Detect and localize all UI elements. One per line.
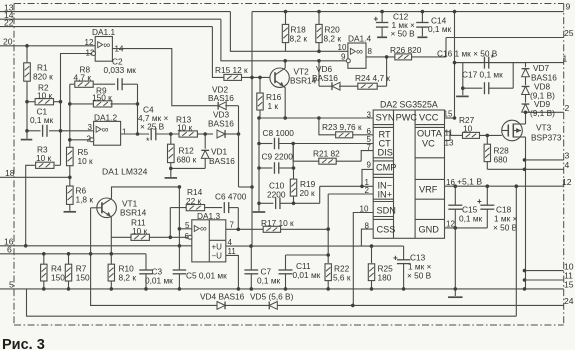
wire CMP pin9 xyxy=(362,169,373,186)
diode VD7 xyxy=(522,63,558,83)
svg-text:10: 10 xyxy=(463,124,473,134)
svg-text:CMP: CMP xyxy=(376,163,396,173)
svg-text:R24 4,7 к: R24 4,7 к xyxy=(355,73,390,83)
resistor R6 xyxy=(64,177,94,212)
capacitor C4 xyxy=(138,105,179,147)
wire bus13 step down to DA1.4 pin10 line xyxy=(230,12,353,52)
wire VD2/VD3 node down to 187 xyxy=(238,134,240,187)
svg-text:R23 9,76 к: R23 9,76 к xyxy=(322,122,362,132)
resistor R12 xyxy=(168,134,197,168)
resistor R19 xyxy=(290,168,315,203)
svg-text:20: 20 xyxy=(3,37,13,47)
svg-text:150 к: 150 к xyxy=(92,92,112,102)
svg-text:9: 9 xyxy=(367,161,372,170)
resistor R13 xyxy=(176,115,213,138)
capacitor C17 xyxy=(456,63,513,97)
wire SDN pin10 to line24 xyxy=(353,213,373,306)
transistor VT1 xyxy=(91,198,147,218)
resistor R4 xyxy=(41,254,66,289)
resistor R16 xyxy=(257,77,282,118)
svg-text:BAS16: BAS16 xyxy=(208,93,234,103)
svg-text:Рис. 3: Рис. 3 xyxy=(2,337,45,350)
op-amp DA1.4 xyxy=(338,34,373,69)
wire IN+ node down to R22 and C11 branch xyxy=(286,229,329,263)
svg-text:C16 1 мк × 50 B: C16 1 мк × 50 B xyxy=(437,49,498,59)
svg-text:22 к: 22 к xyxy=(186,196,202,206)
svg-text:R17 10 к: R17 10 к xyxy=(261,218,294,228)
capacitor C16 electrolytic xyxy=(437,49,526,69)
svg-text:C5 0,01 мк: C5 0,01 мк xyxy=(186,271,227,281)
resistor R26 xyxy=(390,38,446,60)
wire DA1.1 output to VD2 xyxy=(112,49,215,106)
capacitor C10 xyxy=(259,181,320,210)
svg-text:CSS: CSS xyxy=(377,225,396,235)
resistor R24 xyxy=(355,57,390,89)
capacitor C5 xyxy=(173,246,227,289)
resistor R22 xyxy=(325,264,351,289)
resistor R8 xyxy=(70,64,115,140)
svg-text:+: + xyxy=(374,15,379,24)
wire OUTA pins 11/13 merge xyxy=(445,128,463,147)
svg-text:22: 22 xyxy=(4,17,14,27)
svg-text:8,2 к: 8,2 к xyxy=(119,272,137,282)
wire R14 junction to DA1.3 pin6 xyxy=(168,208,188,238)
svg-text:1: 1 xyxy=(563,53,568,63)
diode VD4 xyxy=(200,292,245,310)
svg-text:0,033 мк: 0,033 мк xyxy=(104,65,137,75)
diode VD9 zener xyxy=(522,94,556,118)
svg-text:BAS16: BAS16 xyxy=(209,156,235,166)
node terminal 5 bus xyxy=(0,280,564,290)
wire IN+ pin2 xyxy=(328,194,373,229)
svg-text:0,1 мк: 0,1 мк xyxy=(428,24,452,34)
resistor R27 xyxy=(459,115,502,138)
wire VT1 emitter down xyxy=(110,216,113,254)
svg-text:2: 2 xyxy=(565,103,570,113)
wire DA1.4 output xyxy=(366,56,395,58)
wire bottom return bus xyxy=(27,289,517,316)
svg-text:OUTA: OUTA xyxy=(417,129,443,139)
wire DA1.3 pin11 to bus5 xyxy=(226,255,239,289)
resistor R18 xyxy=(282,12,307,52)
svg-text:BSP373: BSP373 xyxy=(531,133,562,143)
node terminal 4 xyxy=(487,160,569,170)
svg-text:5,6 к: 5,6 к xyxy=(333,272,351,282)
transistor VT2 xyxy=(270,67,317,88)
node terminal 18 xyxy=(0,168,70,178)
svg-text:18: 18 xyxy=(5,168,15,178)
wire VT3 source down xyxy=(525,137,527,289)
wire bus14 step down to DA1.4 pin9 line xyxy=(221,19,347,61)
svg-text:13: 13 xyxy=(445,139,454,148)
svg-text:+: + xyxy=(393,254,398,263)
svg-text:8,2 к: 8,2 к xyxy=(290,33,308,43)
svg-text:10 к: 10 к xyxy=(177,122,193,132)
resistor R1 xyxy=(24,46,53,102)
svg-text:0,1 мк: 0,1 мк xyxy=(257,276,281,286)
op-amp DA1.3 xyxy=(179,211,236,262)
svg-text:4: 4 xyxy=(565,160,570,170)
wire DA1.2 output line xyxy=(121,133,150,135)
svg-text:20 к: 20 к xyxy=(300,188,316,198)
svg-text:10 к: 10 к xyxy=(132,226,148,236)
svg-text:−U: −U xyxy=(212,252,223,261)
svg-text:VT3: VT3 xyxy=(536,123,552,133)
svg-text:DA1.4: DA1.4 xyxy=(348,34,371,44)
node terminal 3 xyxy=(525,151,570,161)
svg-text:10 к: 10 к xyxy=(36,153,52,163)
svg-text:4,7 к: 4,7 к xyxy=(74,72,92,82)
svg-text:7: 7 xyxy=(367,143,372,152)
capacitor C1 xyxy=(21,102,61,140)
wire VT3 drain to node2 xyxy=(525,112,527,124)
svg-text:SDN: SDN xyxy=(377,206,396,216)
svg-text:× 50 B: × 50 B xyxy=(407,271,432,281)
svg-text:× 25 B: × 25 B xyxy=(140,122,165,132)
capacitor C8 on CT line xyxy=(259,128,373,149)
node terminal 9 xyxy=(252,2,571,12)
svg-text:∞: ∞ xyxy=(102,124,109,135)
resistor R10 xyxy=(108,254,136,289)
svg-text:9: 9 xyxy=(566,2,571,12)
op-amp DA1.2 xyxy=(61,112,128,145)
capacitor C6 xyxy=(215,192,247,230)
svg-text:12: 12 xyxy=(562,177,572,187)
op-amp DA1.1 xyxy=(85,27,124,61)
resistor R14 xyxy=(170,187,222,211)
IC DA2 SG3525A xyxy=(360,100,456,239)
svg-text:VD7: VD7 xyxy=(533,63,550,73)
svg-text:DA1 LM324: DA1 LM324 xyxy=(102,167,148,177)
svg-text:2200: 2200 xyxy=(267,190,286,200)
resistor R21 to DIS xyxy=(293,144,373,165)
svg-text:+: + xyxy=(477,197,482,206)
resistor R28 xyxy=(484,135,509,169)
resistor R20 xyxy=(316,12,342,52)
svg-text:150: 150 xyxy=(51,272,65,282)
capacitor C7 xyxy=(244,246,280,289)
wire VT1 base down to line24 xyxy=(90,208,92,306)
svg-text:11: 11 xyxy=(228,247,237,256)
svg-text:C8 1000: C8 1000 xyxy=(263,128,295,138)
svg-text:0,1 мк: 0,1 мк xyxy=(30,115,54,125)
node terminal 24 xyxy=(90,296,574,306)
svg-text:10: 10 xyxy=(338,43,347,52)
svg-text:R26 820: R26 820 xyxy=(390,45,422,55)
svg-text:IN+: IN+ xyxy=(378,190,393,200)
node terminal 20 xyxy=(0,37,95,47)
svg-text:6: 6 xyxy=(7,245,12,255)
wire CSS pin8 xyxy=(361,229,373,246)
svg-text:VRF: VRF xyxy=(419,185,438,195)
capacitor C13 electrolytic xyxy=(393,246,432,289)
svg-text:1,8 к: 1,8 к xyxy=(76,195,94,205)
svg-text:0,1 мк: 0,1 мк xyxy=(459,214,483,224)
wire long riser bus9 to bus16 at x252 xyxy=(251,12,253,247)
wire DA1.1 pin13 to R2 node xyxy=(61,54,92,166)
transistor VT3 MOSFET xyxy=(502,120,562,142)
svg-text:(9,1 B): (9,1 B) xyxy=(530,108,555,118)
svg-text:× 50 B: × 50 B xyxy=(493,223,518,233)
wire GND pin12 line xyxy=(445,227,488,229)
svg-text:R21 82: R21 82 xyxy=(313,149,340,159)
node terminal 10 xyxy=(525,261,574,271)
svg-text:820 к: 820 к xyxy=(33,72,53,82)
svg-text:*: * xyxy=(491,53,495,63)
svg-text:VD5 (5,6 B): VD5 (5,6 B) xyxy=(250,292,294,302)
svg-text:5: 5 xyxy=(9,280,14,290)
svg-text:+5,1 B: +5,1 B xyxy=(457,177,482,187)
svg-text:0,01 мк: 0,01 мк xyxy=(145,276,173,286)
svg-text:15: 15 xyxy=(564,280,574,290)
wire GND rail down with ground xyxy=(448,228,463,297)
capacitor C2 xyxy=(104,57,138,91)
wire DA1.3 pin4 to bus16 segment xyxy=(226,245,404,247)
svg-text:GND: GND xyxy=(419,225,440,235)
wire VT1 collector to DA1.3 pin5 riser xyxy=(111,187,180,246)
svg-text:1 к: 1 к xyxy=(268,101,279,111)
svg-text:10 к: 10 к xyxy=(78,156,94,166)
svg-text:DA2 SG3525A: DA2 SG3525A xyxy=(380,100,438,110)
wire IN- pin1 xyxy=(320,186,374,203)
resistor R5 xyxy=(67,140,94,178)
svg-text:BAS16: BAS16 xyxy=(312,73,338,83)
node terminal 25 xyxy=(446,28,574,38)
svg-text:SYN: SYN xyxy=(376,113,395,123)
svg-text:∞: ∞ xyxy=(200,224,207,235)
node terminal 6 xyxy=(0,245,146,255)
diode VD2 xyxy=(208,85,239,135)
diode VD3 xyxy=(208,110,239,138)
svg-text:VCC: VCC xyxy=(419,113,439,123)
svg-text:BSR14: BSR14 xyxy=(120,208,147,218)
wire SYN pin3 line xyxy=(259,117,373,119)
svg-text:7: 7 xyxy=(230,220,235,229)
svg-text:C9 2200: C9 2200 xyxy=(262,152,294,162)
capacitor C12 electrolytic xyxy=(374,12,416,39)
svg-text:VC: VC xyxy=(422,139,435,149)
svg-text:+U: +U xyxy=(212,243,223,252)
svg-text:8,2 к: 8,2 к xyxy=(324,33,342,43)
vertical C8/C9/C10 rail with terminator xyxy=(253,118,266,212)
svg-text:1: 1 xyxy=(122,127,127,136)
capacitor C15 xyxy=(448,186,482,228)
resistor R11 xyxy=(111,218,168,241)
diode VD5 xyxy=(250,292,294,310)
node terminal 12 xyxy=(445,177,572,187)
svg-text:C17 0,1 мк: C17 0,1 мк xyxy=(462,70,503,80)
diode VD1 xyxy=(165,134,236,178)
node terminal 14 xyxy=(0,10,221,20)
svg-text:25: 25 xyxy=(564,28,574,38)
svg-text:680 к: 680 к xyxy=(177,155,197,165)
svg-text:∞: ∞ xyxy=(103,40,110,51)
diode VD6 and R24 feedback xyxy=(312,61,358,90)
wire VD chain horizontal at 187 xyxy=(239,186,253,188)
svg-text:680: 680 xyxy=(494,155,508,165)
svg-text:C6 4700: C6 4700 xyxy=(215,192,247,202)
svg-text:0,01 мк: 0,01 мк xyxy=(293,270,321,280)
svg-text:DIS: DIS xyxy=(378,148,393,158)
svg-text:DA1.2: DA1.2 xyxy=(94,112,117,122)
node terminal 16 xyxy=(0,237,192,247)
resistor R9 xyxy=(70,85,138,107)
svg-text:VD4 BAS16: VD4 BAS16 xyxy=(200,292,245,302)
svg-text:∞: ∞ xyxy=(356,47,363,58)
wire bus22 down to R15 xyxy=(212,27,224,78)
node terminal 13 xyxy=(0,2,230,12)
svg-text:8: 8 xyxy=(368,47,373,56)
svg-text:VD1: VD1 xyxy=(211,147,228,157)
svg-text:12: 12 xyxy=(85,38,94,47)
svg-text:9: 9 xyxy=(341,53,346,62)
capacitor C11 xyxy=(279,255,321,289)
resistor R23 to RT xyxy=(319,118,373,138)
svg-text:× 50 B: × 50 B xyxy=(391,29,416,39)
node terminal 1 xyxy=(455,53,568,63)
diode VD8 zener xyxy=(522,77,556,101)
wire VT2 collector xyxy=(284,61,286,69)
wire DA1.3 output pin7 xyxy=(226,228,263,230)
resistor R15 xyxy=(215,65,270,80)
capacitor C9 xyxy=(259,152,294,174)
wire CT node rail xyxy=(292,144,294,169)
svg-text:R15 12 к: R15 12 к xyxy=(215,65,248,75)
wire VT2 emitter to SYN line xyxy=(284,86,286,118)
svg-text:10 к: 10 к xyxy=(37,90,53,100)
wire +5.1 rail down right side xyxy=(515,186,517,316)
svg-text:DA1.1: DA1.1 xyxy=(92,27,115,37)
svg-text:150: 150 xyxy=(76,272,90,282)
svg-text:PWC: PWC xyxy=(396,113,418,123)
resistor R17 xyxy=(261,218,328,232)
svg-text:BAS16: BAS16 xyxy=(208,119,234,129)
capacitor C3 xyxy=(139,254,173,289)
capacitor C14 xyxy=(416,12,451,38)
resistor R7 xyxy=(65,254,90,289)
resistor R25 xyxy=(368,246,393,289)
resistor R3 xyxy=(26,145,61,246)
svg-text:3: 3 xyxy=(367,111,372,120)
node terminal 22 xyxy=(0,17,212,27)
svg-text:24: 24 xyxy=(564,296,574,306)
node terminal 15 xyxy=(564,280,574,290)
node terminal 11 xyxy=(525,271,574,281)
svg-text:*: * xyxy=(146,136,150,146)
resistor R2 xyxy=(27,83,61,105)
capacitor C18 electrolytic xyxy=(477,186,518,232)
wire C2/R9 to DA1.2 output node xyxy=(137,84,139,134)
node terminal 2 xyxy=(526,103,570,113)
wire riser bus9 to VCC pin15 xyxy=(445,12,455,118)
svg-text:180: 180 xyxy=(378,272,392,282)
